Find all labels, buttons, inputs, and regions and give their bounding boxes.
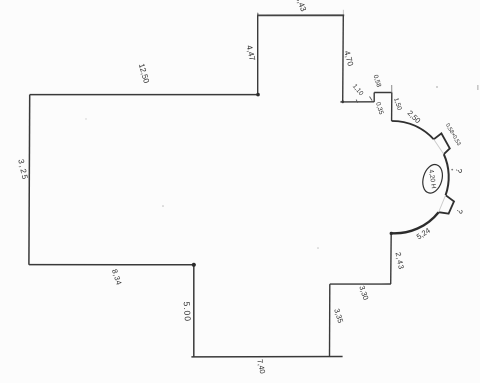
bay window arc middle: [444, 154, 449, 195]
faint chord of niche 2: [439, 195, 446, 212]
faint overshoot above corner H: [391, 85, 393, 93]
bay niche 1 (0,58x0,53): [434, 133, 450, 154]
wall: bottom (7,40): [191, 356, 342, 358]
faint overshoot above corner D: [342, 10, 344, 16]
wall: small step horizontal (1,10): [340, 101, 374, 103]
svg-text:5.00: 5.00: [182, 301, 193, 322]
wall: lower-left vertical (5.00): [193, 265, 195, 357]
junction dot at corner E: [341, 100, 344, 103]
junction dot at corner O: [192, 263, 196, 267]
faint scan speckle 3: [436, 86, 438, 88]
wall: tower left vertical (4,47): [257, 13, 259, 95]
wall: step down (3,35): [329, 284, 331, 357]
tick on 1,10 segment: [356, 100, 357, 103]
faint scan speckle 1: [162, 205, 164, 207]
wall: step right (0,58): [374, 92, 392, 94]
wall: below bay (2,43): [390, 233, 393, 284]
bay niche 2: [439, 195, 454, 213]
wall: down to bay start (1,50): [391, 93, 393, 122]
wall: top of left wing (12,50): [30, 94, 258, 96]
wall: step left (3,30): [330, 283, 391, 285]
junction dot at bay end J: [390, 232, 393, 235]
tick near corner F: [370, 97, 373, 101]
wall: middle horizontal (8,34): [29, 264, 194, 266]
faint scan speckle 2: [317, 247, 319, 249]
wall: tower right vertical (4,70): [342, 15, 345, 102]
wall: step up (0,35): [373, 93, 375, 102]
ink dot near upper question mark: [451, 169, 453, 171]
bay window arc lower (5,24): [391, 212, 438, 233]
junction dot at corner B: [256, 93, 260, 97]
wall: left side (3,25): [28, 95, 31, 265]
faint scan speckle 4: [85, 118, 86, 119]
faint overshoot above corner C: [257, 13, 259, 16]
faint chord of niche 1: [434, 139, 444, 154]
wall: tower top (4,43): [257, 14, 344, 16]
radius ellipse: [420, 162, 446, 195]
faint edge dash right: [477, 85, 479, 90]
bay window arc upper (2,50): [392, 121, 434, 139]
